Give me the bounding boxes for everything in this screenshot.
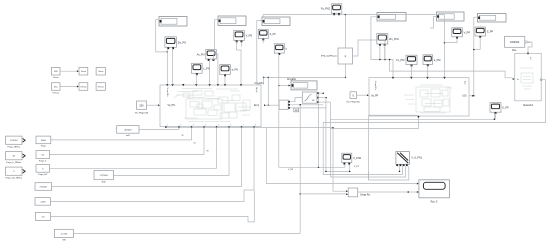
wire 11740 long [74,232,301,234]
wire S7 feed [278,85,290,87]
svg-text:VD_PN(ponN): VD_PN(ponN) [135,112,149,114]
wire gain1 output up [344,15,346,48]
wire VS channel2 [369,115,419,180]
constant 0 (VD_PP) [346,92,359,104]
svg-text:Fsign_2EHza: Fsign_2EHza [8,146,21,148]
svg-text:V_PP: V_PP [464,31,471,34]
svg-text:L_PN: L_PN [203,68,209,71]
svg-text:VTmax: VTmax [52,92,60,94]
wire SM net vertical [299,104,301,233]
B1 right output port arrow [264,104,266,106]
scope icon V_S_PN1 (crossed box) [396,152,423,167]
wire scope4 feed [371,17,386,60]
scope block S1 (top-left display) [159,17,187,27]
svg-text:V_S_PN1: V_S_PN1 [411,157,423,160]
label OmgaPu above B1 [254,83,264,85]
wire Zin_PN1 stub2 [384,45,386,60]
wire 16 turn up [368,172,370,180]
goto VTmse [79,83,88,91]
wire M2 in1 feed [290,98,302,102]
svg-text:5: 5 [218,124,219,126]
constant -1163 [35,198,51,206]
wire V_PN net channel [279,93,345,171]
B2 right output arrow [472,95,474,97]
wire B1 bottom1 out [166,127,346,191]
wire long feedback B [323,80,545,175]
svg-text:Fv_PN/: Fv_PN/ [396,59,405,62]
constant 1.6 [36,212,51,220]
wire L_PN icon from B1 top [195,74,197,84]
wire S_PP tap [473,37,480,50]
block M2 (flipped, inputs right) [279,100,290,109]
scope block S4 [377,13,406,22]
wire scope1 feed [156,20,168,53]
scope block S5 [437,12,465,21]
svg-text:Fsign_fr_2EHza: Fsign_fr_2EHza [6,161,22,164]
wire long feedback A [330,114,495,121]
scope icon V_PN2 [342,153,362,164]
wire Em branch up [268,77,270,106]
inport 45 Fsign_fr_2EHza [6,152,26,164]
constant 272000 [35,183,52,191]
svg-text:Fsign: Fsign [41,146,47,148]
wire OmgaPu up from B1 [263,77,265,84]
wire const -1163 to port8 [51,128,255,202]
constant 3 Fsign_hf2 [36,165,50,177]
svg-text:SM: SM [62,240,65,242]
svg-text:1000000: 1000000 [510,41,520,44]
wire Av_PN icon input1 from B1 top [209,60,211,85]
svg-text:7: 7 [243,124,244,126]
svg-text:Fsign_fr: Fsign_fr [39,160,47,163]
svg-text:Vd_PP: Vd_PP [371,96,379,98]
scope icon a_PN/ [423,55,441,66]
svg-text:Network1: Network1 [523,104,534,107]
svg-text:a_PN: a_PN [232,69,238,72]
svg-text:Vmse: Vmse [98,71,104,73]
wire Fv_PN icon to B2 [411,66,413,78]
constant 55 Fsign_fr [36,151,50,163]
scope block S6 [478,14,507,23]
constant 1000000 Rse [505,36,531,52]
svg-text:In1: In1 [529,57,531,60]
scope icon U_PP [490,103,509,114]
svg-text:a_PN/: a_PN/ [434,59,441,62]
svg-text:2: 2 [180,124,181,126]
subsystem block Network1 [515,53,541,107]
wire V_PP tap [445,38,458,43]
label OmgaRu above S7 [287,79,297,81]
wire long to Rys5 in1 [266,128,417,184]
svg-text:Rys. 5: Rys. 5 [431,201,438,204]
wire const Rd2 to port6 [113,128,229,176]
block M1 (curve block) [302,92,317,103]
wire label 54 [194,143,196,145]
wire gain1 to B2 port1 jog [353,40,394,77]
wire channel3 vertical [329,102,331,177]
wire OmgaRa out to Rys5 [358,191,417,193]
scope icon V_PP [452,28,471,39]
scope block S7 (mid display) [291,81,317,90]
svg-text:S_Ph: S_Ph [270,33,277,36]
constant 250 (VD_PN) [135,101,149,114]
wire Rse to Network1 top [527,42,532,53]
svg-text:I(O): I(O) [463,96,467,98]
wire scope5 feed [430,17,437,29]
svg-text:4: 4 [205,124,206,126]
scope icon Zin_PN1 [377,34,400,46]
wire M2 in3 [290,107,326,109]
scope block S3 [262,17,290,26]
svg-text:32: 32 [182,135,184,137]
wire to Network1 In [389,59,513,78]
B2 left input port arrow [367,94,369,96]
scope icon Av_PN [197,50,217,61]
Network1 top port arrow [527,53,529,55]
scope icon V_PN [234,31,253,43]
wire label 96 [207,151,209,153]
inport 3 Fsign_hf2_2EHza [5,167,25,179]
svg-text:1: 1 [167,124,168,126]
svg-text:Fsign_hf2: Fsign_hf2 [38,174,48,176]
svg-text:Zin_PN: Zin_PN [178,41,187,44]
svg-text:8: 8 [255,124,256,126]
wire scope6 feed [473,17,478,96]
svg-text:OmgaPu: OmgaPu [254,83,264,85]
constant 4000 Fsign [36,136,51,148]
Network1 left input arrow [513,78,515,80]
wire label 32 [182,135,184,137]
wire V_PN icon feed [237,42,241,85]
svg-text:Fo_PN2: Fo_PN2 [321,8,331,11]
constant 251 VTmax [52,83,61,95]
svg-text:N (m): N (m) [255,88,257,93]
display Rys5 [417,180,450,204]
goto Vmse [79,67,88,75]
wire VD_PN to B1 [147,104,158,106]
wire net F down to B2 port4 [444,15,446,78]
svg-text:S_PP: S_PP [487,31,494,34]
wire U_PP stub [495,113,497,119]
constant 452000 wd1 [117,126,139,138]
svg-text:54: 54 [194,143,196,145]
M1 right port marks [317,92,319,103]
wire S_Ph icon feed [262,40,264,44]
scope icon S_Ph [258,29,276,40]
svg-text:Rse: Rse [512,50,517,52]
subsystem B2 top port arrows [392,77,446,79]
svg-text:Suma LPo: Suma LPo [374,81,376,90]
wire gain1 input from OmgaPu net [345,64,347,78]
wire a_PN icon from B1 top [224,76,226,85]
constant 249 Vmax [52,67,61,79]
wire V_PN icon feed2 [240,42,242,47]
Network1 right port mark [540,79,542,81]
scope block S2 [218,16,246,26]
svg-text:452000: 452000 [124,129,132,131]
wire scope3 feed [257,21,262,85]
long wire net F top [263,14,445,17]
from VTmse2 [96,83,105,91]
svg-text:96: 96 [207,151,209,153]
from Vmse2 [96,67,105,75]
svg-text:|PN(+1)|/|PN(-1)|: |PN(+1)|/|PN(-1)| [321,56,337,58]
subsystem B2 bottom output arrow [417,116,419,118]
wire const 452000 to port2 [139,128,179,130]
wire OmgaPu net [263,77,346,79]
svg-text:Vd_PN: Vd_PN [168,105,176,107]
wire 16 long [51,191,255,222]
svg-text:Zin_PN1: Zin_PN1 [389,38,399,41]
svg-text:6: 6 [230,124,231,126]
svg-text:E(m): E(m) [254,105,259,107]
wire const 4000 to port3 [51,128,192,140]
wire VS channel1 [330,166,405,177]
svg-text:4000: 4000 [41,140,47,142]
svg-text:107000: 107000 [10,140,18,142]
wire B2 bottom down [330,118,418,128]
wire const 3 to port5 [50,128,217,169]
wire Vmax to goto [60,70,79,72]
wire const 272000 to port7 [52,128,242,187]
svg-text:V_PP: V_PP [354,166,360,168]
from tag SM [294,108,299,112]
constant -227000 Rd2 [94,171,113,184]
svg-text:OmgaRu: OmgaRu [287,79,297,81]
wire M1 out3 [319,101,330,103]
block OmgaRa [346,188,370,197]
svg-text:U_PP: U_PP [502,107,509,110]
svg-text:272000: 272000 [40,187,48,189]
wire M1 out1 [319,92,324,94]
wire VS channel0 [399,166,401,172]
wire Zin_PN input1 from B1 top [166,48,168,84]
wire const 55 to port4 [50,128,205,155]
B1 left input port arrow [158,104,160,106]
wire VD_PP to B2 [357,94,367,96]
subsystem B1 top port arrows [166,84,242,86]
svg-text:Vmse: Vmse [81,71,87,73]
svg-text:-1163: -1163 [40,201,46,203]
wire Zin_PN1 stub1 [379,45,381,60]
svg-text:VTmse: VTmse [98,87,105,89]
wire scope2 feed [214,20,219,54]
subsystem B1 bottom port arrows [165,124,256,128]
svg-text:Omga Ra: Omga Ra [360,194,371,196]
wire a_PN/ icon to B2 [427,65,429,77]
scope icon S_PP [475,27,494,38]
wire b icon net vertical [278,54,280,167]
wire Av_PN input2 jog [214,54,218,85]
wire B2 IO output [469,95,472,97]
scope icon Zin_PN [165,37,186,49]
wire Fo_PN2 stubs [334,13,339,15]
svg-text:V_PN: V_PN [246,35,253,38]
wire VTmax to goto [60,86,79,88]
svg-text:Fsign_hf2_2EHza: Fsign_hf2_2EHza [5,177,22,179]
svg-text:-227000: -227000 [100,175,109,177]
svg-text:V_PN: V_PN [288,169,294,171]
subsystem block B1 (large left subsystem) [160,85,261,127]
scope icon Fv_PN [396,55,417,66]
scope icon a_PN [220,65,238,77]
svg-text:3: 3 [193,124,194,126]
scope icon b [274,44,287,55]
constant -11740 SM [54,229,73,241]
svg-text:Suma LPo: Suma LPo [166,88,168,97]
wire Em to M2 [266,104,279,106]
wire Zin_PN input2 from B1 top [172,48,174,84]
svg-text:I(O): I(O) [464,81,466,85]
scope icon Fo_PN2 [321,4,342,15]
wire M1 out2 [319,97,327,99]
wire channel2 to V_PN2 [325,98,350,173]
wire M2 in2 [290,104,323,106]
wire to OmgaRa in2 [300,193,346,195]
inport 107000 Fsign_2EHza [6,136,26,148]
svg-text:250: 250 [139,104,144,107]
label V_PP under V_PN2 [354,166,360,168]
subsystem block B2 (large right subsystem) [369,78,469,116]
svg-text:VTmse: VTmse [80,87,87,89]
svg-text:-11740: -11740 [61,233,68,235]
svg-text:V_PN2: V_PN2 [353,157,362,160]
svg-text:Av_PN: Av_PN [197,53,205,56]
svg-text:VD_PP(ponN): VD_PP(ponN) [346,101,359,103]
scope icon L_PN [192,63,210,75]
gain block 1 (PN ratio) [321,48,353,64]
